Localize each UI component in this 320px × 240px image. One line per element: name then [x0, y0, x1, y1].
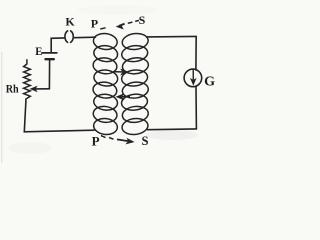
wire below battery down to wiper junction	[48, 60, 50, 89]
bottom flux arc: dashes near P	[101, 136, 106, 138]
top flux arrow pointing left at P	[119, 24, 124, 26]
svg-text:G: G	[204, 75, 215, 90]
svg-text:S: S	[142, 134, 149, 148]
svg-text:Rh: Rh	[6, 83, 20, 95]
key K (tap key symbol)	[65, 31, 68, 43]
faint page-edge line (scan artifact)	[1, 52, 2, 163]
svg-text:K: K	[65, 15, 75, 29]
wire: key to primary coil top	[74, 36, 95, 39]
rheostat Rh zigzag	[24, 60, 31, 101]
svg-text:P: P	[91, 16, 98, 30]
battery E: long plate	[42, 52, 57, 54]
svg-text:P: P	[92, 133, 100, 148]
bottom wire right segment	[148, 128, 197, 131]
wire top-left: corner above battery to key	[51, 38, 64, 53]
background paper	[0, 0, 234, 163]
top flux arc: dashes near S	[128, 22, 133, 23]
battery E: short plate	[46, 58, 54, 60]
svg-text:S: S	[139, 13, 146, 27]
right wire: bottom corner up to galvanometer	[195, 87, 197, 129]
arrow between coils (lower) pointing left	[122, 96, 130, 98]
primary coil P (stack of ring turns)	[93, 32, 119, 51]
right wire: galvanometer to top-right corner	[195, 36, 197, 70]
secondary coil S (stack of ring turns)	[121, 32, 149, 51]
rheostat wiper wire	[34, 88, 50, 90]
top flux arc: dash near P	[100, 28, 105, 29]
top wire right segment	[147, 35, 197, 38]
svg-text:E: E	[35, 44, 42, 58]
wire: Rh bottom to bottom-left corner and bottom wire left segment	[24, 101, 94, 132]
arrow between coils (upper) pointing right	[115, 71, 123, 73]
galvanometer G circle	[184, 69, 202, 87]
galvanometer needle arrow (down)	[192, 70, 194, 81]
rheostat wiper arrowhead	[30, 86, 36, 91]
bottom flux arrow pointing right at S	[117, 139, 128, 141]
faint scan smudges	[146, 130, 198, 140]
